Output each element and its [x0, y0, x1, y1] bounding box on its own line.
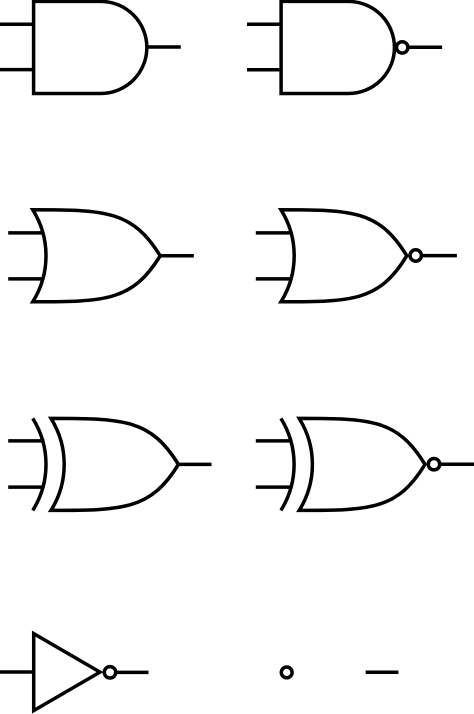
OR gate U3	[33, 210, 160, 302]
wire NAND input B	[247, 68, 283, 72]
NAND output bubble	[397, 42, 408, 53]
AND gate U1	[34, 1, 147, 93]
wire AND input A	[0, 22, 35, 26]
wire AND input B	[0, 68, 35, 72]
wire NOR output	[415, 254, 457, 258]
wire NOT input	[0, 670, 34, 674]
wire NOR input B	[256, 277, 293, 281]
XOR leading arc	[33, 418, 46, 510]
NOR output bubble	[410, 250, 421, 261]
wire XNOR output	[433, 463, 474, 467]
NOT output bubble	[104, 667, 115, 678]
wire AND output	[147, 45, 181, 49]
standalone inversion bubble	[281, 667, 292, 678]
wire NOT output	[110, 671, 149, 675]
wire XOR output	[177, 463, 212, 467]
wire OR input B	[8, 277, 45, 281]
wire XNOR input B	[256, 485, 292, 489]
NOT gate U7 (inverter triangle)	[34, 634, 100, 711]
wire XOR input B	[8, 485, 44, 489]
wire OR input A	[8, 231, 45, 235]
wire OR output	[159, 254, 194, 258]
NOR gate U4	[281, 210, 407, 302]
XNOR gate U6	[299, 418, 425, 510]
XNOR leading arc	[281, 418, 294, 510]
wire XOR input A	[8, 439, 44, 443]
wire XNOR input A	[256, 439, 292, 443]
wire NAND input A	[247, 22, 283, 26]
NAND gate U2	[281, 1, 394, 93]
standalone wire segment	[366, 670, 399, 674]
wire NOR input A	[256, 231, 293, 235]
XOR gate U5	[51, 418, 178, 510]
XNOR output bubble	[428, 459, 439, 470]
wire NAND output	[402, 45, 442, 49]
